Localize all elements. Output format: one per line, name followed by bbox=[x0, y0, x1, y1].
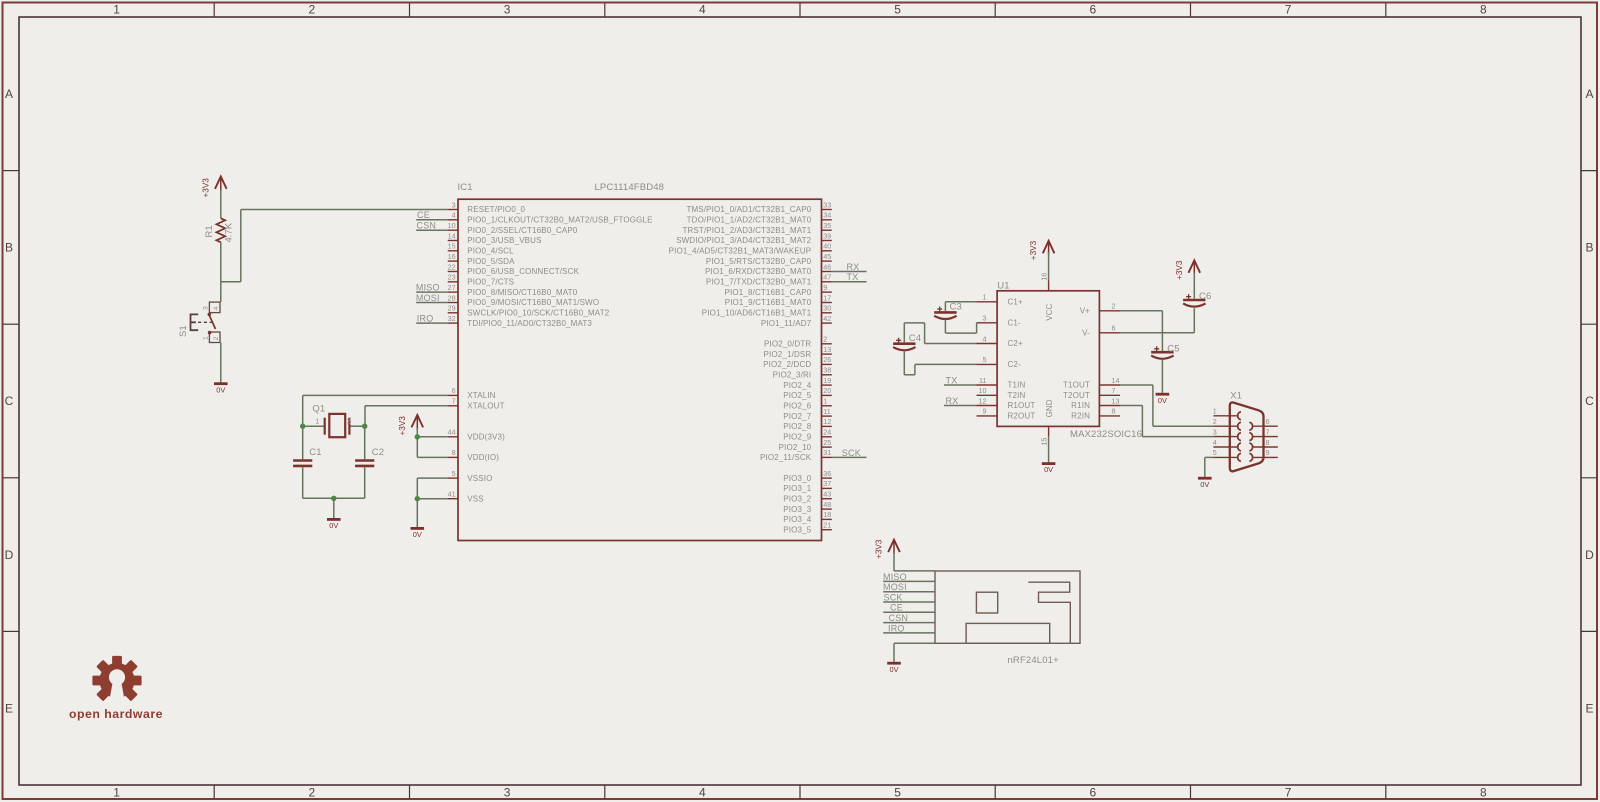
svg-text:C: C bbox=[1585, 394, 1594, 408]
IC1 pin 13 PIO2_1/DSR bbox=[764, 345, 832, 359]
svg-text:5: 5 bbox=[894, 786, 901, 800]
svg-text:7: 7 bbox=[1266, 427, 1270, 436]
svg-text:4: 4 bbox=[699, 3, 706, 17]
svg-text:11: 11 bbox=[979, 376, 986, 385]
ground 0V below U1 bbox=[1042, 464, 1056, 475]
svg-text:PIO2_5: PIO2_5 bbox=[783, 391, 811, 400]
IC1 pin 11 PIO2_7 bbox=[783, 407, 832, 421]
svg-text:PIO2_10: PIO2_10 bbox=[779, 443, 812, 452]
svg-text:0V: 0V bbox=[1200, 480, 1209, 489]
S1 pin number 4 bbox=[213, 306, 220, 310]
wire VDD node to VDD(IO) pin 8 bbox=[417, 437, 447, 458]
frame row ticks left/right bbox=[4, 171, 1598, 632]
svg-text:CSN: CSN bbox=[889, 613, 909, 623]
svg-text:MISO: MISO bbox=[416, 283, 440, 293]
svg-text:C5: C5 bbox=[1167, 343, 1179, 354]
junction node crystal caps ground bbox=[331, 496, 336, 501]
IC1 pin 30 PIO1_10/AD6/CT16B1_MAT1 bbox=[702, 304, 832, 318]
ground 0V below crystal caps bbox=[327, 519, 341, 530]
svg-text:9: 9 bbox=[983, 407, 987, 416]
IC1 pin 1 PIO2_6 bbox=[783, 397, 832, 411]
svg-text:C2-: C2- bbox=[1008, 360, 1022, 369]
open hardware logo gear bbox=[92, 656, 141, 706]
wire net RX stub at U1 R1OUT bbox=[944, 405, 977, 407]
transistor: none / switch S1 bbox=[191, 302, 221, 342]
svg-text:5: 5 bbox=[1213, 448, 1217, 457]
IC1 pin 27 PIO0_8/MISO/CT16B0_MAT0 bbox=[448, 283, 578, 297]
wire U1 T1OUT to X1 pin 2 bbox=[1120, 385, 1213, 426]
wire C4 top to U1 C2+ bbox=[904, 323, 976, 344]
svg-text:16: 16 bbox=[1040, 273, 1049, 281]
svg-text:8: 8 bbox=[1266, 438, 1270, 447]
svg-text:nRF24L01+: nRF24L01+ bbox=[1008, 655, 1060, 666]
C2 reference label bbox=[372, 447, 384, 458]
svg-text:48: 48 bbox=[823, 500, 831, 509]
ground 0V below S1 bbox=[214, 384, 228, 395]
frame column numbers 1-8 top bbox=[113, 3, 1487, 17]
IC1 pin 44 VDD(3V3) bbox=[448, 428, 506, 442]
svg-text:PIO2_3/RI: PIO2_3/RI bbox=[773, 371, 812, 380]
svg-text:9: 9 bbox=[1266, 448, 1270, 457]
svg-text:PIO0_4/SCL: PIO0_4/SCL bbox=[467, 247, 514, 256]
net label MISO bbox=[416, 283, 440, 293]
svg-text:PIO3_2: PIO3_2 bbox=[783, 494, 811, 503]
nRF24L01+ value label bbox=[1008, 655, 1060, 666]
svg-text:0V: 0V bbox=[889, 665, 898, 674]
svg-text:PIO2_6: PIO2_6 bbox=[783, 402, 811, 411]
svg-text:10: 10 bbox=[448, 221, 456, 230]
U1 pin 11 T1IN bbox=[977, 376, 1026, 390]
svg-text:TX: TX bbox=[946, 375, 958, 385]
svg-text:9: 9 bbox=[823, 283, 827, 292]
wire R1 bottom to S1 and branch to IC1 RESET bbox=[221, 210, 448, 303]
svg-text:X1: X1 bbox=[1230, 390, 1242, 401]
IC1 pin 26 PIO2_2/DCD bbox=[763, 355, 832, 369]
IC1 reference label bbox=[458, 182, 473, 193]
svg-text:6: 6 bbox=[1266, 417, 1270, 426]
IC1 pin 46 PIO1_6/RXD/CT32B0_MAT0 bbox=[705, 262, 832, 276]
svg-text:T1OUT: T1OUT bbox=[1063, 381, 1090, 390]
wire net TX stub at IC1 bbox=[832, 281, 867, 283]
svg-text:GND: GND bbox=[1045, 399, 1054, 417]
svg-text:XTALIN: XTALIN bbox=[467, 391, 495, 400]
IC1 pin 47 PIO1_7/TXD/CT32B0_MAT1 bbox=[706, 273, 832, 287]
IC1 pin 8 VDD(IO) bbox=[448, 448, 499, 462]
wire net IRQ stub at nRF module bbox=[883, 632, 935, 634]
IC1 pin 10 PIO0_2/SSEL/CT16B0_CAP0 bbox=[448, 221, 578, 235]
+3V3 supply symbol at IC1 VDD bbox=[398, 415, 423, 436]
svg-text:6: 6 bbox=[1090, 786, 1097, 800]
svg-text:PIO0_6/USB_CONNECT/SCK: PIO0_6/USB_CONNECT/SCK bbox=[467, 267, 579, 276]
svg-text:PIO3_0: PIO3_0 bbox=[783, 474, 811, 483]
wire U1 V+ to C5 bbox=[1120, 311, 1162, 351]
svg-text:PIO0_2/SSEL/CT16B0_CAP0: PIO0_2/SSEL/CT16B0_CAP0 bbox=[467, 226, 578, 235]
IC1 pin 29 SWCLK/PIO0_10/SCK/CT16B0_MAT2 bbox=[448, 304, 610, 318]
svg-text:3: 3 bbox=[983, 314, 987, 323]
svg-text:A: A bbox=[1585, 87, 1593, 101]
IC1 pin 32 TDI/PIO0_11/AD0/CT32B0_MAT3 bbox=[448, 314, 593, 328]
svg-text:PIO2_4: PIO2_4 bbox=[783, 381, 811, 390]
X1 pin 8 contact and stub bbox=[1249, 438, 1277, 451]
U1 pin 4 C2+ bbox=[977, 334, 1024, 348]
svg-text:1: 1 bbox=[113, 786, 120, 800]
wire net SCK stub at IC1 bbox=[832, 456, 867, 458]
svg-text:47: 47 bbox=[823, 273, 831, 282]
net label CSN bbox=[417, 221, 437, 231]
svg-text:0V: 0V bbox=[1158, 396, 1167, 405]
wire C3 bottom to U1 C1- bbox=[945, 320, 976, 334]
IC1 pin 38 PIO2_3/RI bbox=[773, 366, 832, 380]
svg-text:C1-: C1- bbox=[1008, 319, 1022, 328]
svg-text:PIO2_1/DSR: PIO2_1/DSR bbox=[764, 350, 812, 359]
IC1 pin 17 PIO1_9/CT16B1_MAT0 bbox=[725, 293, 832, 307]
svg-text:A: A bbox=[5, 87, 13, 101]
svg-text:PIO3_3: PIO3_3 bbox=[783, 505, 811, 514]
svg-text:D: D bbox=[1585, 548, 1594, 562]
svg-text:PIO3_4: PIO3_4 bbox=[783, 515, 811, 524]
U1 pin 14 T1OUT bbox=[1063, 376, 1120, 390]
IC1 pin 31 PIO2_11/SCK bbox=[760, 448, 832, 462]
X1 pin 2 contact and stub bbox=[1213, 417, 1241, 430]
wire net MISO stub at IC1 bbox=[416, 291, 448, 293]
svg-text:LPC1114FBD48: LPC1114FBD48 bbox=[595, 182, 665, 193]
svg-text:C1+: C1+ bbox=[1008, 298, 1024, 307]
svg-text:R1IN: R1IN bbox=[1071, 401, 1090, 410]
wire +3V3 to R1 top bbox=[220, 190, 222, 219]
svg-text:+3V3: +3V3 bbox=[875, 539, 884, 559]
wire +3V3 to U1 VCC bbox=[1048, 252, 1050, 281]
ic U1 MAX232 body bbox=[997, 291, 1099, 427]
svg-text:2: 2 bbox=[213, 336, 220, 340]
X1 pin 5 contact and stub bbox=[1213, 448, 1241, 461]
svg-text:38: 38 bbox=[823, 366, 831, 375]
svg-text:5: 5 bbox=[452, 469, 456, 478]
svg-text:42: 42 bbox=[823, 314, 831, 323]
svg-text:open hardware: open hardware bbox=[69, 707, 163, 721]
IC1 value label LPC1114FBD48 bbox=[595, 182, 665, 193]
svg-text:17: 17 bbox=[823, 293, 831, 302]
X1 pin 3 contact and stub bbox=[1213, 427, 1241, 440]
wire VSS node to ground bbox=[416, 499, 418, 527]
open hardware logo text bbox=[69, 707, 163, 721]
svg-text:22: 22 bbox=[448, 262, 456, 271]
U1 pin 3 C1- bbox=[977, 314, 1022, 328]
svg-text:RX: RX bbox=[847, 262, 860, 272]
wire C1/C2 bottoms joined bbox=[303, 497, 365, 499]
svg-text:45: 45 bbox=[823, 252, 831, 261]
svg-text:MAX232SOIC16: MAX232SOIC16 bbox=[1070, 429, 1142, 440]
svg-text:3: 3 bbox=[504, 786, 511, 800]
svg-text:VSS: VSS bbox=[467, 494, 483, 503]
wire VSS node to VSS pin 41 bbox=[417, 498, 447, 500]
IC1 pin 23 PIO0_7/CTS bbox=[448, 273, 515, 287]
net label MOSI at nRF module bbox=[883, 582, 907, 592]
svg-text:C3: C3 bbox=[950, 302, 962, 313]
svg-text:PIO3_1: PIO3_1 bbox=[783, 484, 811, 493]
svg-text:MOSI: MOSI bbox=[416, 293, 440, 303]
wire net TX stub at U1 T1IN bbox=[944, 384, 977, 386]
resistor R1 bbox=[216, 218, 225, 242]
U1 pin 8 R2IN bbox=[1071, 407, 1120, 421]
IC1 pin 45 PIO1_5/RTS/CT32B0_CAP0 bbox=[706, 252, 832, 266]
S1 reference label bbox=[178, 325, 189, 337]
S1 pin number 1 bbox=[203, 336, 210, 340]
svg-text:20: 20 bbox=[823, 386, 831, 395]
net label SCK bbox=[842, 448, 861, 458]
svg-text:TDI/PIO0_11/AD0/CT32B0_MAT3: TDI/PIO0_11/AD0/CT32B0_MAT3 bbox=[467, 319, 592, 328]
capacitor C2 bbox=[355, 426, 374, 498]
ground 0V below X1 bbox=[1198, 478, 1212, 489]
svg-text:CE: CE bbox=[890, 603, 903, 613]
IC1 pin 35 TRST/PIO1_2/AD3/CT32B1_MAT1 bbox=[682, 221, 831, 235]
U1 pin 7 T2OUT bbox=[1063, 386, 1120, 400]
IC1 pin 48 PIO3_3 bbox=[783, 500, 832, 514]
svg-text:VDD(IO): VDD(IO) bbox=[467, 453, 499, 462]
capacitor C3 bbox=[934, 302, 962, 319]
IC1 pin 19 PIO2_4 bbox=[783, 376, 832, 390]
IC1 pin 3 RESET/PIO0_0 bbox=[448, 200, 526, 214]
svg-text:19: 19 bbox=[823, 376, 831, 385]
U1 pin 2 V+ bbox=[1080, 302, 1120, 316]
svg-text:0V: 0V bbox=[413, 530, 422, 539]
R1 reference label bbox=[204, 225, 215, 237]
ground 0V below IC1 VSS bbox=[411, 528, 425, 539]
svg-text:6: 6 bbox=[1112, 324, 1116, 333]
X1 pin 4 contact and stub bbox=[1213, 438, 1241, 451]
svg-text:PIO1_5/RTS/CT32B0_CAP0: PIO1_5/RTS/CT32B0_CAP0 bbox=[706, 257, 812, 266]
U1 pin 5 C2- bbox=[977, 355, 1022, 369]
IC1 pin 37 PIO3_1 bbox=[783, 479, 832, 493]
U1 pin 16 VCC bbox=[1040, 273, 1054, 321]
capacitor C6 bbox=[1183, 291, 1211, 307]
svg-text:TDO/PIO1_1/AD2/CT32B1_MAT0: TDO/PIO1_1/AD2/CT32B1_MAT0 bbox=[687, 216, 812, 225]
svg-text:+3V3: +3V3 bbox=[1175, 260, 1184, 280]
X1 pin 7 contact and stub bbox=[1249, 427, 1277, 440]
svg-text:14: 14 bbox=[1112, 376, 1120, 385]
capacitor C4 bbox=[893, 333, 921, 350]
IC1 pin 4 PIO0_1/CLKOUT/CT32B0_MAT2/USB_FTOGGLE bbox=[448, 211, 653, 225]
svg-text:T2IN: T2IN bbox=[1008, 391, 1026, 400]
svg-text:5: 5 bbox=[983, 355, 987, 364]
svg-text:TX: TX bbox=[847, 272, 859, 282]
wire XTALOUT net: IC1 pin 7 to crystal right node bbox=[365, 406, 448, 426]
wire +3V3 to C6 top bbox=[1193, 273, 1195, 299]
svg-text:0V: 0V bbox=[329, 521, 338, 530]
svg-text:26: 26 bbox=[823, 355, 831, 364]
svg-text:8: 8 bbox=[1480, 3, 1487, 17]
net label CSN at nRF module bbox=[889, 613, 909, 623]
U1 pin 13 R1IN bbox=[1071, 396, 1120, 410]
svg-text:MISO: MISO bbox=[883, 572, 907, 582]
IC1 pin 21 PIO3_5 bbox=[783, 521, 832, 535]
svg-text:3: 3 bbox=[452, 200, 456, 209]
svg-text:TRST/PIO1_2/AD3/CT32B1_MAT1: TRST/PIO1_2/AD3/CT32B1_MAT1 bbox=[682, 226, 811, 235]
svg-text:8: 8 bbox=[452, 448, 456, 457]
IC1 pin 12 PIO2_8 bbox=[783, 417, 832, 431]
svg-text:44: 44 bbox=[448, 428, 456, 437]
net label TX bbox=[847, 272, 859, 282]
IC1 pin 24 PIO2_9 bbox=[783, 428, 832, 442]
svg-text:C6: C6 bbox=[1199, 291, 1211, 302]
IC1 pin 42 PIO1_11/AD7 bbox=[761, 314, 832, 328]
svg-text:5: 5 bbox=[894, 3, 901, 17]
svg-text:TMS/PIO1_0/AD1/CT32B1_CAP0: TMS/PIO1_0/AD1/CT32B1_CAP0 bbox=[686, 205, 811, 214]
svg-text:8: 8 bbox=[1112, 407, 1116, 416]
wire X1 pin 5 to ground bbox=[1205, 457, 1214, 476]
IC1 pin 2 PIO2_0/DTR bbox=[764, 335, 832, 349]
svg-text:4: 4 bbox=[1213, 438, 1217, 447]
svg-text:PIO1_4/AD5/CT32B1_MAT3/WAKEUP: PIO1_4/AD5/CT32B1_MAT3/WAKEUP bbox=[669, 247, 812, 256]
connector X1 DB9 body bbox=[1230, 402, 1264, 471]
IC1 pin 6 XTALIN bbox=[448, 386, 496, 400]
wire U1 R1IN to X1 pin 3 bbox=[1120, 406, 1213, 437]
wire C3 top to U1 C1+ bbox=[945, 302, 976, 311]
U1 pin 1 C1+ bbox=[977, 293, 1024, 307]
junction node VDD bbox=[415, 434, 420, 439]
R1 value label 4.7K bbox=[223, 222, 234, 242]
wire U1 GND to ground bbox=[1048, 437, 1050, 463]
svg-text:21: 21 bbox=[823, 521, 831, 530]
svg-text:7: 7 bbox=[1285, 786, 1292, 800]
IC1 pin 7 XTALOUT bbox=[448, 397, 505, 411]
svg-text:1: 1 bbox=[113, 3, 120, 17]
svg-text:PIO2_11/SCK: PIO2_11/SCK bbox=[760, 453, 812, 462]
svg-text:E: E bbox=[1585, 701, 1593, 715]
svg-text:VSSIO: VSSIO bbox=[467, 474, 492, 483]
svg-text:U1: U1 bbox=[997, 280, 1009, 291]
svg-text:PIO0_7/CTS: PIO0_7/CTS bbox=[467, 278, 514, 287]
IC1 pin 28 PIO0_9/MOSI/CT16B0_MAT1/SWO bbox=[448, 293, 600, 307]
IC1 pin 36 PIO3_0 bbox=[783, 469, 832, 483]
U1 pin 6 V- bbox=[1082, 324, 1120, 338]
svg-text:40: 40 bbox=[823, 242, 831, 251]
svg-text:29: 29 bbox=[448, 304, 456, 313]
wire C4 bottom to U1 C2- bbox=[904, 351, 976, 375]
svg-text:3: 3 bbox=[203, 306, 210, 310]
wire junction to ground bbox=[333, 498, 335, 518]
svg-text:1: 1 bbox=[1213, 407, 1217, 416]
U1 pin 9 R2OUT bbox=[977, 407, 1036, 421]
net label IRQ bbox=[417, 314, 434, 324]
net label TX bbox=[946, 375, 958, 385]
nRF module connector block bbox=[966, 623, 1050, 643]
svg-text:11: 11 bbox=[823, 407, 830, 416]
IC1 pin 39 SWDIO/PIO1_3/AD4/CT32B1_MAT2 bbox=[676, 231, 832, 245]
S1 pin number 2 bbox=[213, 336, 220, 340]
wire nRF module GND to ground bbox=[894, 643, 935, 662]
capacitor C1 bbox=[293, 426, 312, 498]
svg-text:46: 46 bbox=[823, 262, 831, 271]
U1 pin 10 T2IN bbox=[977, 386, 1026, 400]
X1 pin 1 contact and stub bbox=[1213, 407, 1241, 420]
U1 pin 12 R1OUT bbox=[977, 396, 1036, 410]
IC1 pin 43 PIO3_2 bbox=[783, 490, 832, 504]
wire net RX stub at IC1 bbox=[832, 271, 867, 273]
svg-text:37: 37 bbox=[823, 479, 831, 488]
net label IRQ at nRF module bbox=[888, 623, 905, 633]
svg-text:R2OUT: R2OUT bbox=[1008, 412, 1036, 421]
svg-text:+3V3: +3V3 bbox=[1029, 240, 1038, 260]
C1 reference label bbox=[309, 447, 321, 458]
svg-text:0V: 0V bbox=[1044, 465, 1053, 474]
svg-text:13: 13 bbox=[823, 345, 831, 354]
wire U1 V- to C6 bbox=[1120, 308, 1194, 333]
svg-text:PIO2_8: PIO2_8 bbox=[783, 422, 811, 431]
svg-text:43: 43 bbox=[823, 490, 831, 499]
wire net MISO stub at nRF module bbox=[883, 580, 935, 582]
svg-text:PIO1_9/CT16B1_MAT0: PIO1_9/CT16B1_MAT0 bbox=[725, 298, 812, 307]
frame row letters A-E left bbox=[5, 87, 14, 715]
svg-text:2: 2 bbox=[1112, 302, 1116, 311]
svg-text:RESET/PIO0_0: RESET/PIO0_0 bbox=[467, 205, 525, 214]
IC1 pin 14 PIO0_3/USB_VBUS bbox=[448, 231, 542, 245]
wire net CE stub at IC1 bbox=[416, 219, 448, 221]
svg-text:B: B bbox=[5, 241, 13, 255]
IC1 pin 5 VSSIO bbox=[448, 469, 493, 483]
svg-text:3: 3 bbox=[504, 3, 511, 17]
svg-text:PIO1_11/AD7: PIO1_11/AD7 bbox=[761, 319, 812, 328]
svg-text:4: 4 bbox=[452, 211, 456, 220]
svg-text:C4: C4 bbox=[909, 333, 921, 344]
wire net MOSI stub at IC1 bbox=[416, 302, 448, 304]
svg-text:B: B bbox=[1585, 241, 1593, 255]
svg-text:12: 12 bbox=[979, 396, 987, 405]
U1 value label MAX232SOIC16 bbox=[1070, 429, 1142, 440]
svg-text:T1IN: T1IN bbox=[1008, 381, 1026, 390]
net label RX bbox=[946, 396, 959, 406]
svg-text:T2OUT: T2OUT bbox=[1063, 391, 1090, 400]
svg-text:PIO0_5/SDA: PIO0_5/SDA bbox=[467, 257, 515, 266]
wire net CSN stub at IC1 bbox=[416, 229, 448, 231]
svg-text:2: 2 bbox=[309, 3, 316, 17]
svg-text:CE: CE bbox=[417, 210, 430, 220]
svg-text:SWDIO/PIO1_3/AD4/CT32B1_MAT2: SWDIO/PIO1_3/AD4/CT32B1_MAT2 bbox=[676, 236, 812, 245]
wire +3V3 to nRF module VCC bbox=[894, 552, 935, 571]
svg-text:30: 30 bbox=[823, 304, 831, 313]
X1 pin 9 contact and stub bbox=[1249, 448, 1277, 461]
nRF module chip square bbox=[976, 592, 997, 613]
S1 pin number 3 bbox=[203, 306, 210, 310]
IC1 pin 40 PIO1_4/AD5/CT32B1_MAT3/WAKEUP bbox=[669, 242, 832, 256]
svg-text:25: 25 bbox=[823, 438, 831, 447]
svg-text:7: 7 bbox=[452, 397, 456, 406]
+3V3 supply symbol at nRF24L01 bbox=[875, 539, 900, 559]
junction node crystal right bbox=[362, 424, 367, 429]
svg-text:VCC: VCC bbox=[1045, 303, 1054, 320]
U1 pin 15 GND bbox=[1040, 399, 1054, 445]
svg-text:12: 12 bbox=[823, 417, 831, 426]
svg-text:8: 8 bbox=[1480, 786, 1487, 800]
svg-text:36: 36 bbox=[823, 469, 831, 478]
wire net CSN stub at nRF module bbox=[883, 622, 935, 624]
svg-text:PIO2_9: PIO2_9 bbox=[783, 433, 811, 442]
svg-text:PIO3_5: PIO3_5 bbox=[783, 525, 811, 534]
svg-text:1: 1 bbox=[823, 397, 827, 406]
svg-text:18: 18 bbox=[823, 510, 831, 519]
svg-text:Q1: Q1 bbox=[312, 404, 325, 415]
svg-text:RX: RX bbox=[946, 396, 959, 406]
svg-text:7: 7 bbox=[1112, 386, 1116, 395]
svg-text:SCK: SCK bbox=[842, 448, 861, 458]
wire net CE stub at nRF module bbox=[883, 611, 935, 613]
wire net MOSI stub at nRF module bbox=[883, 591, 935, 593]
svg-text:PIO1_10/AD6/CT16B1_MAT1: PIO1_10/AD6/CT16B1_MAT1 bbox=[702, 309, 812, 318]
svg-text:PIO1_8/CT16B1_CAP0: PIO1_8/CT16B1_CAP0 bbox=[725, 288, 812, 297]
IC1 pin 34 TDO/PIO1_1/AD2/CT32B1_MAT0 bbox=[687, 211, 832, 225]
svg-text:2: 2 bbox=[309, 786, 316, 800]
junction node VSS bbox=[415, 496, 420, 501]
svg-text:PIO0_9/MOSI/CT16B0_MAT1/SWO: PIO0_9/MOSI/CT16B0_MAT1/SWO bbox=[467, 298, 599, 307]
